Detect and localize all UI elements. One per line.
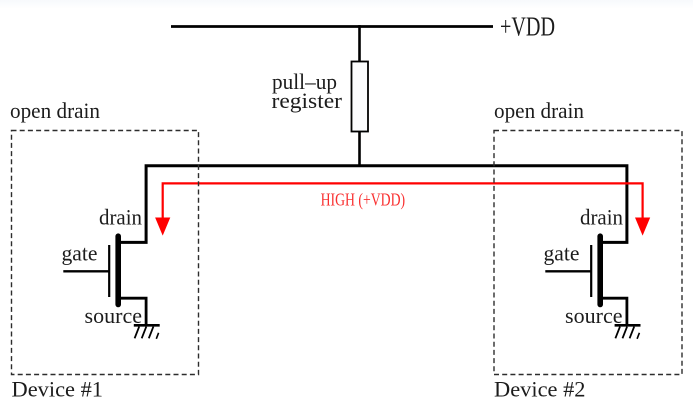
Q1 channel bar <box>115 236 121 304</box>
svg-text:HIGH (+VDD): HIGH (+VDD) <box>321 189 406 209</box>
svg-text:drain: drain <box>580 204 623 229</box>
svg-text:open drain: open drain <box>10 98 100 123</box>
Q1 gate lead <box>63 270 108 272</box>
svg-text:Device #1: Device #1 <box>12 376 104 401</box>
Q2 gate bar <box>590 245 592 297</box>
red signal line HIGH <box>163 183 643 219</box>
wire: rail to resistor top <box>358 25 361 63</box>
Q2 channel bar <box>597 236 603 304</box>
Q2 gate lead <box>545 270 590 272</box>
red arrowhead right <box>635 218 650 236</box>
Q2 source lead <box>600 298 627 325</box>
svg-text:open drain: open drain <box>494 98 584 123</box>
resistor R1 pull-up register <box>352 62 369 132</box>
Q1 source lead <box>118 298 146 325</box>
dashed box device 1 <box>12 131 199 375</box>
svg-text:source: source <box>565 303 623 328</box>
svg-text:register: register <box>272 88 343 113</box>
svg-text:drain: drain <box>99 204 142 229</box>
ground (device 2) <box>615 325 641 339</box>
dashed box device 2 <box>494 131 682 375</box>
transistor Q2 (device 2 n-mosfet) <box>545 236 627 325</box>
svg-text:Device #2: Device #2 <box>494 376 586 401</box>
wire: resistor bottom to bus <box>358 132 361 168</box>
wire: +VDD top rail <box>171 25 493 28</box>
svg-text:+VDD: +VDD <box>500 11 555 41</box>
transistor Q1 (device 1 n-mosfet) <box>63 236 146 325</box>
svg-text:gate: gate <box>62 241 98 266</box>
Q1 gate bar <box>108 245 110 297</box>
red arrowhead left <box>155 218 170 236</box>
svg-text:source: source <box>85 303 143 328</box>
wire: bus between drains <box>118 166 627 243</box>
ground (device 1) <box>134 325 160 339</box>
svg-text:gate: gate <box>544 241 580 266</box>
